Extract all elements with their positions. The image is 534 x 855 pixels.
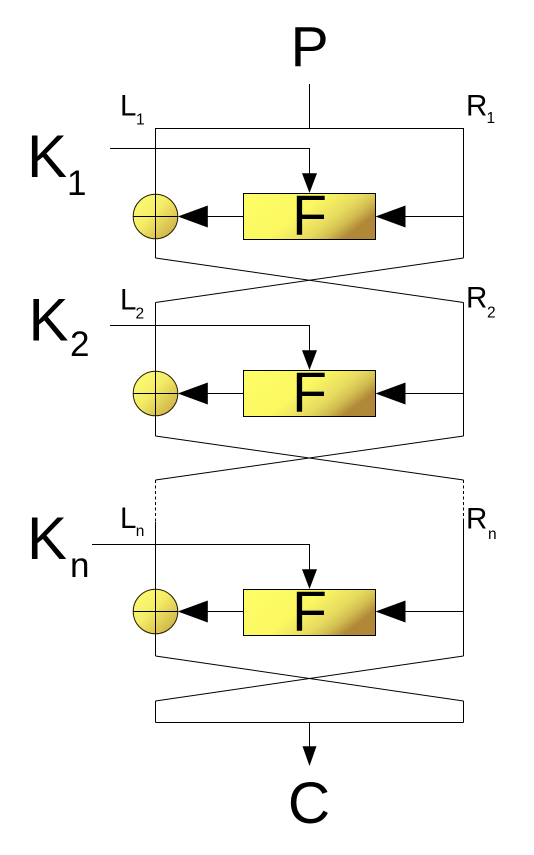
wire R2 to F2: [380, 393, 464, 395]
svg-text:K: K: [29, 287, 69, 354]
wire Fn output to XORn: [180, 611, 243, 613]
svg-text:R: R: [466, 282, 487, 315]
svg-text:F: F: [292, 580, 327, 644]
label L2: [120, 284, 144, 323]
swap wire R1 to L2: [156, 258, 464, 303]
arrow into XOR2: [178, 383, 208, 405]
label Rn: [466, 503, 497, 544]
wire K2 round key: [110, 326, 310, 353]
wire R2 right vertical round 2: [463, 303, 465, 437]
svg-text:K: K: [27, 505, 67, 572]
wire F2 output to XOR2: [180, 393, 243, 395]
arrow into Fn right side: [376, 601, 406, 623]
wire L2 left vertical round 2: [155, 303, 157, 437]
wire F1 output to XOR1: [180, 216, 243, 218]
combine box left edge: [155, 701, 157, 723]
combine box bottom edge: [156, 722, 464, 724]
wire Rn to Fn: [380, 611, 464, 613]
wire Kn round key: [92, 545, 310, 572]
svg-text:R: R: [466, 90, 487, 123]
XOR node round n: [133, 589, 178, 634]
svg-text:C: C: [288, 771, 330, 836]
label R1: [466, 90, 495, 128]
arrow ciphertext output: [303, 746, 317, 766]
wire round 1 top edge: [155, 128, 464, 130]
svg-text:1: 1: [487, 110, 496, 127]
label K1: [27, 123, 86, 203]
svg-text:2: 2: [70, 325, 89, 364]
arrow into F1 right side: [376, 206, 406, 228]
svg-text:n: n: [70, 546, 89, 585]
label Kn: [27, 505, 89, 585]
arrow Kn into Fn: [302, 569, 317, 589]
svg-text:R: R: [466, 503, 487, 536]
label K2: [29, 287, 90, 365]
swap wire R2 to L3: [156, 436, 464, 480]
svg-text:F: F: [292, 184, 327, 248]
svg-text:n: n: [136, 523, 145, 540]
wire L1 left vertical round 1: [155, 128, 157, 258]
XOR node round 2: [133, 371, 178, 416]
wire K1 round key: [110, 149, 310, 176]
svg-text:L: L: [120, 502, 136, 535]
swap wire Ln to combine: [156, 656, 464, 701]
swap wire L2 to R3: [156, 436, 464, 480]
swap wire L1 to R2: [156, 258, 464, 303]
arrow into XORn: [178, 601, 208, 623]
label Ln: [120, 502, 144, 540]
function box F2: [244, 361, 376, 425]
wire ciphertext output: [309, 723, 311, 749]
svg-text:1: 1: [136, 112, 145, 129]
function box Fn: [244, 580, 376, 644]
svg-text:2: 2: [487, 305, 496, 322]
wire P input: [309, 84, 311, 129]
wire R1 to F1: [380, 216, 464, 218]
combine box right edge: [463, 701, 465, 723]
wire Rn right vertical round n: [463, 520, 465, 656]
svg-text:1: 1: [67, 164, 86, 203]
svg-text:2: 2: [136, 306, 145, 323]
arrow into XOR1: [178, 206, 208, 228]
label R2: [466, 282, 496, 322]
svg-text:K: K: [27, 123, 67, 190]
svg-text:P: P: [291, 15, 329, 79]
XOR node round 1: [133, 194, 178, 239]
label L1: [120, 90, 145, 129]
arrow K1 into F1: [302, 173, 317, 193]
wire R1 right vertical round 1: [463, 128, 465, 258]
dashed wire omitted rounds left: [155, 480, 157, 522]
function box F1: [244, 184, 376, 248]
dashed wire omitted rounds right: [463, 480, 465, 520]
arrow K2 into F2: [302, 350, 317, 370]
svg-text:n: n: [488, 526, 497, 543]
svg-text:F: F: [292, 361, 327, 425]
arrow into F2 right side: [376, 383, 406, 405]
swap wire Rn to combine: [156, 656, 464, 701]
svg-text:L: L: [120, 90, 136, 123]
svg-text:L: L: [120, 284, 136, 317]
wire Ln left vertical round n: [155, 522, 157, 656]
